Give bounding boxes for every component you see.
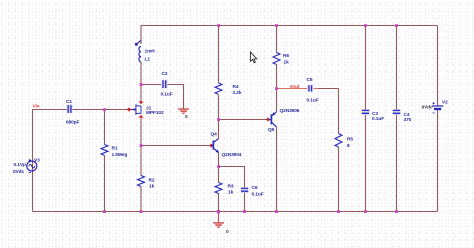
svg-text:680pF: 680pF [66, 119, 80, 125]
svg-text:C6: C6 [252, 185, 258, 191]
svg-text:R2: R2 [149, 177, 155, 183]
svg-text:V3: V3 [34, 158, 40, 164]
svg-text:1k: 1k [284, 60, 290, 66]
svg-text:1mH: 1mH [145, 48, 156, 54]
svg-text:470: 470 [404, 117, 412, 123]
svg-text:0.1Vp: 0.1Vp [14, 162, 26, 168]
svg-text:0.1uF: 0.1uF [161, 91, 173, 97]
svg-text:1k: 1k [228, 189, 234, 195]
svg-text:R3: R3 [228, 183, 234, 189]
svg-text:0Vdc: 0Vdc [13, 169, 24, 175]
svg-text:Vin: Vin [33, 103, 40, 109]
svg-text:C5: C5 [307, 77, 313, 83]
svg-text:Vout: Vout [290, 84, 300, 90]
svg-text:1k: 1k [149, 184, 155, 190]
svg-text:2.2k: 2.2k [233, 90, 242, 96]
svg-text:0.1uF: 0.1uF [252, 191, 264, 197]
svg-text:C1: C1 [66, 99, 72, 105]
svg-text:R6: R6 [283, 53, 289, 59]
svg-text:0: 0 [226, 229, 229, 235]
svg-text:1.5Meg: 1.5Meg [112, 152, 128, 158]
svg-text:0: 0 [185, 114, 188, 120]
svg-text:9Vdc: 9Vdc [422, 104, 433, 110]
svg-text:Q5: Q5 [268, 127, 275, 133]
svg-text:0.1uF: 0.1uF [307, 97, 319, 103]
svg-text:Q2N3904: Q2N3904 [222, 152, 242, 158]
svg-text:Q2N3906: Q2N3906 [280, 108, 300, 114]
svg-text:R5: R5 [347, 136, 353, 142]
svg-text:V2: V2 [442, 99, 448, 105]
svg-text:C3: C3 [372, 111, 378, 117]
svg-text:R1: R1 [112, 145, 118, 151]
svg-text:0.1uF: 0.1uF [372, 116, 384, 122]
svg-text:L1: L1 [145, 56, 151, 62]
svg-text:C2: C2 [162, 71, 168, 77]
svg-text:R4: R4 [233, 84, 239, 90]
svg-text:Q4: Q4 [211, 132, 218, 138]
svg-text:MPF102: MPF102 [146, 110, 164, 116]
svg-text:8: 8 [347, 143, 350, 149]
